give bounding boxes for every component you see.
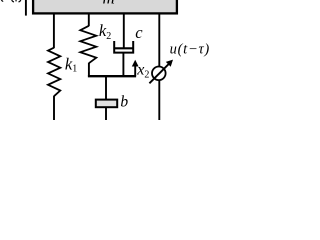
label x1(t) fragment (clipped at top) xyxy=(1,0,3,1)
svg-text:u(t−τ): u(t−τ) xyxy=(170,42,210,58)
block b xyxy=(96,100,117,108)
spring k1 xyxy=(48,48,60,96)
wire spring k1 to bottom xyxy=(53,96,55,120)
bar joining k2 and damper xyxy=(88,75,136,77)
wire mass to source xyxy=(158,13,160,67)
svg-text:b: b xyxy=(120,94,128,111)
arrow x1 shaft xyxy=(25,0,27,16)
wire mass to spring k2 xyxy=(88,13,90,26)
damper c cup xyxy=(114,41,133,53)
source circle u xyxy=(152,67,166,81)
mass m block xyxy=(33,0,177,13)
svg-text:m: m xyxy=(102,0,114,8)
wire spring k2 to bar xyxy=(88,63,90,77)
damper c piston plate xyxy=(114,47,134,49)
wire mass to damper c xyxy=(123,13,125,48)
wire damper to bar xyxy=(122,53,124,77)
source diagonal arrow xyxy=(149,63,169,83)
wire block b to bottom xyxy=(105,108,107,121)
wire bar to block b xyxy=(105,77,107,100)
wire source to bottom xyxy=(158,80,160,121)
spring k2 xyxy=(80,26,96,63)
arrow x2 xyxy=(134,65,136,76)
wire mass to spring k1 xyxy=(53,13,55,48)
svg-text:c: c xyxy=(135,23,143,42)
